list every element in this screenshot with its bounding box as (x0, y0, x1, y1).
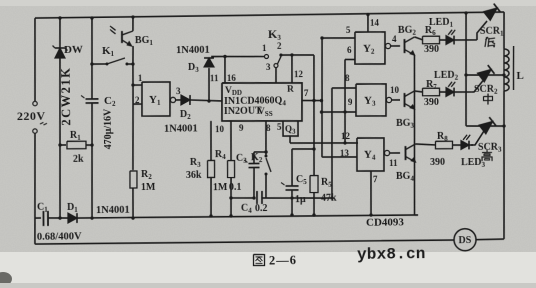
svg-text:1: 1 (138, 73, 143, 83)
svg-text:1μ: 1μ (295, 194, 306, 205)
svg-text:470μ/16V: 470μ/16V (103, 108, 115, 150)
svg-text:DS: DS (458, 235, 471, 246)
svg-text:1N4001: 1N4001 (164, 124, 198, 135)
svg-text:5: 5 (346, 25, 351, 35)
svg-text:12: 12 (294, 69, 304, 79)
svg-text:11: 11 (389, 158, 398, 168)
svg-text:13: 13 (340, 148, 350, 158)
svg-text:10: 10 (390, 85, 400, 95)
svg-text:1N4001: 1N4001 (96, 205, 130, 216)
svg-text:2k: 2k (73, 154, 84, 165)
svg-text:4: 4 (392, 34, 397, 44)
svg-text:220V: 220V (17, 109, 46, 123)
svg-text:1N4001: 1N4001 (176, 45, 210, 56)
svg-text:7: 7 (304, 88, 309, 98)
svg-text:0.1: 0.1 (229, 182, 242, 193)
svg-text:11: 11 (210, 73, 219, 83)
svg-text:2CW21K: 2CW21K (59, 66, 74, 125)
svg-text:0.2: 0.2 (255, 203, 268, 214)
svg-text:3: 3 (176, 86, 181, 96)
svg-text:2—6: 2—6 (269, 253, 297, 267)
svg-text:5: 5 (277, 122, 282, 132)
svg-text:390: 390 (424, 97, 439, 108)
svg-text:1M: 1M (141, 182, 156, 193)
svg-text:3: 3 (266, 62, 271, 72)
svg-text:7: 7 (373, 174, 378, 184)
svg-text:1M: 1M (213, 182, 228, 193)
svg-text:2: 2 (135, 95, 140, 105)
svg-text:CD4093: CD4093 (366, 217, 405, 229)
svg-text:1: 1 (262, 43, 267, 53)
svg-text:6: 6 (347, 45, 352, 55)
svg-text:10: 10 (215, 124, 225, 134)
svg-text:390: 390 (424, 44, 439, 55)
svg-text:R: R (287, 85, 294, 95)
svg-text:14: 14 (370, 18, 380, 28)
svg-text:L: L (516, 70, 523, 82)
svg-text:9: 9 (239, 123, 244, 133)
svg-text:8: 8 (345, 73, 350, 83)
svg-text:390: 390 (430, 157, 445, 168)
svg-text:IN2OUT: IN2OUT (224, 106, 262, 117)
svg-text:DW: DW (64, 44, 83, 56)
svg-text:0.68/400V: 0.68/400V (37, 231, 82, 243)
svg-text:2: 2 (277, 41, 282, 51)
svg-text:16: 16 (227, 73, 237, 83)
svg-text:36k: 36k (186, 170, 202, 181)
svg-text:ybx8.cn: ybx8.cn (357, 245, 426, 264)
svg-text:9: 9 (348, 97, 353, 107)
svg-text:12: 12 (341, 131, 351, 141)
